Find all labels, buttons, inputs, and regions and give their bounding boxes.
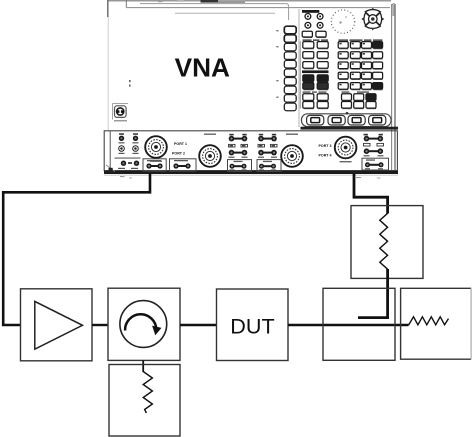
load box	[401, 288, 472, 359]
termination resistor	[143, 372, 152, 414]
navigation arrow pad	[361, 7, 384, 30]
disk drive slot	[158, 0, 245, 3]
stray scan marks below panel	[120, 176, 381, 179]
wire VNA port4 to attenuator	[354, 174, 388, 214]
display softkey row	[302, 112, 392, 127]
wire VNA port1 to amplifier input	[3, 174, 150, 325]
port 4 connector	[335, 137, 357, 163]
auxiliary connectors middle groups	[143, 134, 281, 172]
circulator symbol	[120, 301, 167, 348]
svg-text:PORT 3: PORT 3	[319, 144, 332, 148]
softkey buttons	[276, 26, 296, 111]
svg-text:PORT 2: PORT 2	[172, 152, 185, 156]
receiver box	[323, 288, 395, 360]
amplifier box	[21, 289, 93, 361]
front panel divider bar	[301, 127, 399, 130]
amplifier symbol	[35, 301, 83, 349]
port 3 / port 4 labels	[319, 144, 332, 158]
wire amplifier to circulator	[92, 324, 108, 326]
DUT box	[217, 289, 289, 361]
connector panel	[104, 131, 398, 175]
wire DUT to load	[288, 324, 409, 326]
wire circulator to DUT	[180, 324, 217, 326]
termination box	[109, 365, 180, 437]
display screen bezel	[129, 4, 299, 127]
circulator box	[108, 288, 180, 360]
wire attenuator to receiver box	[358, 269, 388, 318]
svg-text:DUT: DUT	[230, 314, 274, 339]
rotary knob	[331, 10, 354, 33]
auxiliary connectors right group	[362, 134, 389, 170]
attenuator box	[351, 206, 423, 279]
keypad button grid	[300, 39, 382, 108]
wire circulator to termination	[142, 360, 144, 372]
port 1 / port 2 labels	[172, 142, 187, 156]
auxiliary connectors left group	[109, 131, 141, 172]
keypad upper-left buttons	[302, 10, 326, 38]
power switch	[113, 104, 129, 121]
VNA chassis outline	[108, 0, 395, 170]
load resistor	[409, 317, 449, 325]
port 2 connector	[199, 134, 221, 167]
svg-text:PORT 4: PORT 4	[319, 154, 332, 158]
attenuator resistor	[380, 213, 388, 269]
svg-text:PORT 1: PORT 1	[174, 142, 187, 146]
port 1 connector	[145, 136, 167, 162]
svg-text:VNA: VNA	[175, 52, 230, 82]
port 3 connector	[281, 134, 303, 167]
